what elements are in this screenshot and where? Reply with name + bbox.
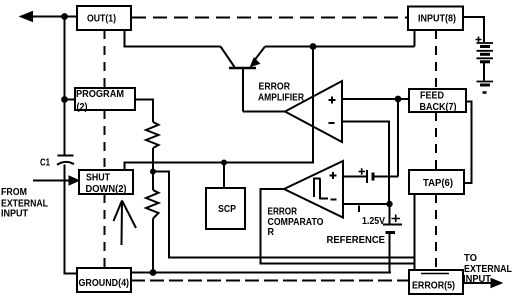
wire R1 to junction (152, 148, 154, 172)
pin box ERROR(5) (409, 270, 463, 294)
svg-text:ERROR(5): ERROR(5) (412, 280, 455, 292)
capacitor C1 (58, 155, 74, 157)
pin box TAP(6) (409, 170, 464, 194)
svg-text:DOWN(2): DOWN(2) (86, 183, 127, 195)
node junction feedback (395, 96, 402, 103)
svg-text:SHUT: SHUT (86, 171, 110, 183)
wire U2 + input (343, 176, 366, 178)
svg-text:FEED: FEED (420, 90, 444, 102)
wire R2 to ground rail (152, 219, 154, 273)
wire U2 - input (343, 203, 390, 205)
node junction SCP tap (221, 160, 227, 166)
node junction on left rail at OUT (61, 13, 68, 20)
wire base line to error amplifier output (243, 111, 285, 113)
wire FEED BACK(7) right to TAP(6) right (464, 102, 472, 184)
svg-text:1.25V: 1.25V (362, 215, 385, 227)
wire feedback junction down to B2 (397, 99, 399, 177)
op-amp U1 error amplifier (285, 81, 342, 142)
pin box GROUND(4) (77, 268, 131, 292)
battery B2 (offset cell) (366, 170, 368, 183)
label + of B1 (476, 37, 482, 43)
arrow to external input (from ERROR(5)) (463, 282, 492, 284)
line inside ERROR(5) (421, 273, 449, 275)
svg-text:AMPLIFIER: AMPLIFIER (258, 92, 304, 104)
hysteresis symbol inside U2 (313, 179, 328, 200)
label - of U1 (329, 122, 335, 124)
wire ground rail (131, 272, 391, 274)
tick minus end of B1 (483, 91, 487, 94)
wire left rail upper (to C1) (64, 16, 66, 155)
wire Q1 emitter to INPUT(8) (265, 30, 415, 47)
svg-text:REFERENCE: REFERENCE (327, 234, 386, 246)
wire dashed PROGRAM(2) to SHUT DOWN(2) (104, 110, 106, 170)
wire U1 + input to FEED BACK(7) (342, 98, 409, 100)
wire dashed TAP(6) to ERROR(5) (435, 194, 437, 270)
battery B1 (external source stack) (477, 42, 494, 44)
svg-text:PROGRAM: PROGRAM (76, 88, 124, 100)
wire SCP stub (223, 163, 225, 189)
block SCP (206, 188, 245, 229)
wire dashed GROUND(4) to ERROR(5) (131, 280, 409, 282)
resistor R1 (146, 122, 159, 148)
node junction on emitter line (310, 43, 317, 50)
wire INPUT(8) right to battery B1 (463, 17, 484, 42)
label + of B2 (359, 168, 366, 174)
node junction divider (150, 169, 156, 175)
svg-text:INPUT: INPUT (463, 273, 492, 285)
node junction reference (386, 201, 392, 207)
resistor R2 (146, 190, 159, 219)
comparator U2 error comparator (284, 161, 343, 218)
svg-text:BACK(7): BACK(7) (420, 101, 457, 113)
pin box PROGRAM(2) (75, 88, 135, 110)
annotation arrow at shutdown (114, 201, 137, 246)
wire U2 output (261, 189, 415, 264)
wire rail to PROGRAM left (65, 99, 76, 101)
pin box OUT(1) (77, 6, 131, 30)
wire dashed INPUT(8) to FEED BACK(7) (435, 30, 437, 89)
wire left rail lower (C1 to GROUND) (65, 165, 78, 274)
node junction ground rail (150, 269, 157, 276)
label + of U1 (329, 97, 336, 104)
transistor Q1 (PNP pass transistor) (221, 47, 235, 68)
pin box SHUT DOWN(2) (79, 170, 133, 194)
svg-text:R: R (268, 226, 275, 238)
svg-text:COMPARATO: COMPARATO (268, 216, 324, 228)
svg-text:C1: C1 (40, 157, 50, 169)
wire divider tap net (R1/R2 junction to TAP column) (153, 172, 415, 258)
pin box INPUT(8) (408, 7, 463, 31)
label + of U2 (330, 172, 337, 179)
wire dashed SHUT DOWN(2) to GROUND(4) (104, 194, 106, 268)
wire OUT(1) left lead (31, 16, 77, 18)
wire TAP(6) bottom to ERROR(5) top (414, 194, 416, 270)
svg-text:(2): (2) (77, 101, 88, 113)
svg-text:TAP(6): TAP(6) (423, 177, 453, 189)
wire vertical through U1 down to shutdown line (125, 47, 314, 171)
svg-text:OUT(1): OUT(1) (87, 13, 116, 25)
wire dashed OUT(1) to INPUT(8) (132, 17, 408, 19)
svg-text:SCP: SCP (218, 203, 236, 215)
label - of U2 (331, 199, 337, 201)
svg-text:INPUT(8): INPUT(8) (418, 13, 456, 25)
battery B3 1.25V reference (389, 204, 391, 224)
wire U1 - input, down to comparator - net (342, 122, 389, 205)
arrow to external (output arrow, pointing left) (20, 12, 33, 22)
node junction on left rail at PROGRAM (61, 96, 68, 103)
svg-text:FROM: FROM (1, 186, 27, 198)
wire dashed FEED BACK(7) to TAP(6) (435, 112, 437, 170)
label + of B3 (392, 215, 401, 223)
tick below minus input (358, 206, 360, 213)
wire PROGRAM right to R1 (135, 100, 153, 123)
svg-text:INPUT: INPUT (1, 208, 29, 220)
svg-text:GROUND(4): GROUND(4) (79, 277, 130, 289)
wire dashed OUT(1) to PROGRAM(2) (104, 30, 106, 88)
pin box FEED BACK(7) (409, 89, 466, 112)
arrow from external input (33, 180, 70, 182)
wire OUT(1) bottom to transistor collector (125, 30, 221, 47)
wire junction to R2 (152, 172, 154, 191)
